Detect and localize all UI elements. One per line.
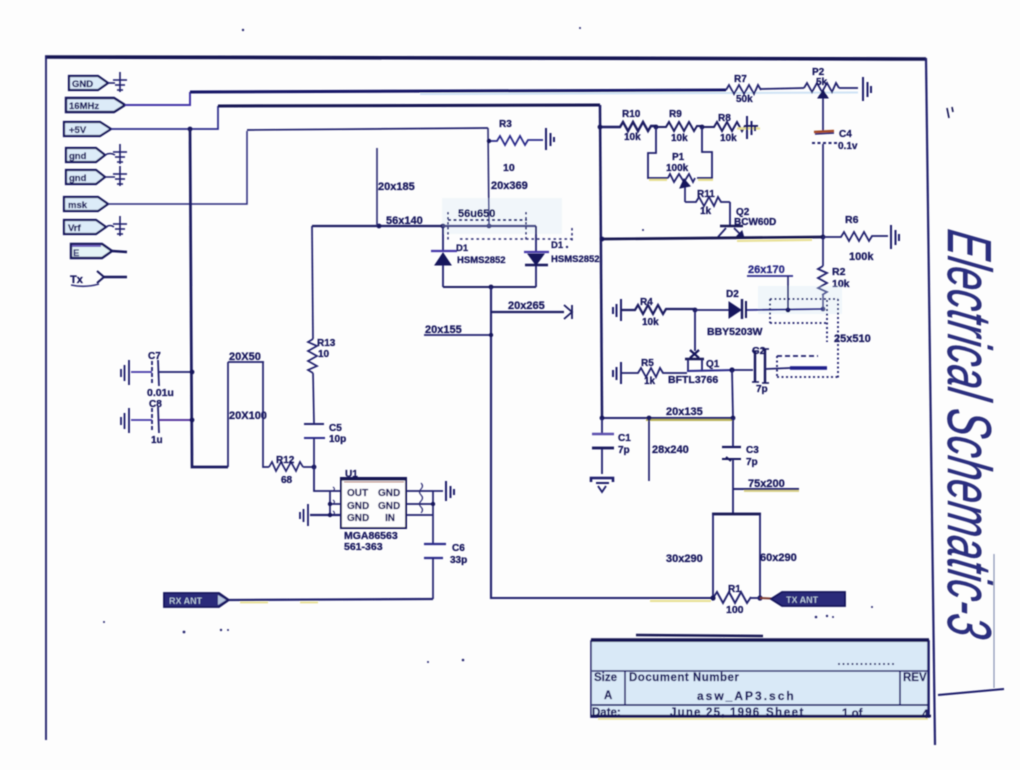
node: [700, 125, 705, 130]
svg-text:10: 10: [503, 162, 515, 174]
svg-text:Size: Size: [594, 672, 617, 684]
node: [729, 367, 734, 372]
IC U1 MGA86563: [341, 469, 406, 553]
scan smudge: [758, 286, 842, 314]
node: [757, 595, 762, 600]
scan speckles: [103, 27, 873, 663]
node: [710, 595, 715, 600]
wire C7 left to ground: [131, 371, 152, 373]
svg-text:561-363: 561-363: [344, 541, 383, 553]
svg-text:60x290: 60x290: [760, 552, 797, 564]
border frame top: [45, 57, 926, 59]
svg-text:Date:: Date:: [592, 707, 621, 719]
svg-text:0.01u: 0.01u: [147, 387, 174, 399]
svg-text:GND: GND: [72, 79, 93, 90]
connector msk: [64, 197, 108, 211]
power wall after R6: [891, 225, 899, 249]
svg-text:16MHz: 16MHz: [69, 101, 99, 112]
capacitor C7: [147, 351, 174, 399]
capacitor C1: [592, 418, 631, 474]
svg-text:20x135: 20x135: [666, 406, 703, 418]
svg-text:R11: R11: [697, 189, 715, 200]
dashed segment box 56u650: [442, 198, 575, 241]
connector TX ANT: [771, 592, 845, 606]
wire: [106, 226, 114, 228]
ground: [113, 144, 127, 164]
node: [693, 308, 698, 313]
wire: [105, 176, 115, 178]
svg-text:100: 100: [726, 604, 744, 616]
svg-text:C8: C8: [149, 399, 162, 410]
stray stroke under handwriting: [938, 689, 1004, 695]
diode D1 right (HSMS2852): [524, 226, 600, 287]
node: [600, 416, 605, 421]
svg-text:HSMS2852: HSMS2852: [551, 254, 600, 265]
node: [786, 308, 791, 313]
svg-text:R9: R9: [669, 109, 682, 120]
wire long vertical down to RF out: [491, 287, 713, 598]
svg-text:1 of: 1 of: [842, 708, 863, 720]
svg-text:56x140: 56x140: [386, 215, 423, 227]
svg-text:C6: C6: [452, 543, 465, 554]
wire R7 to P2: [761, 88, 804, 89]
node +5V junction: [188, 127, 193, 132]
svg-text:10p: 10p: [329, 434, 346, 445]
svg-text:GND: GND: [347, 501, 369, 512]
resistor R1: [650, 584, 751, 616]
svg-text:28x240: 28x240: [652, 444, 689, 456]
wire rail A 16MHz top: [190, 90, 726, 92]
wire Q1 collector down: [732, 370, 733, 418]
wire R13 to C5: [313, 373, 314, 423]
resistor R8: [702, 113, 760, 144]
wire C5 down: [313, 438, 315, 467]
resistor R2 vertical: [818, 237, 850, 309]
svg-text:0.1v: 0.1v: [838, 141, 858, 152]
svg-text:20x369: 20x369: [491, 180, 528, 192]
svg-text:Document Number: Document Number: [629, 672, 739, 684]
svg-text:1u: 1u: [151, 435, 163, 446]
connector +5V: [64, 122, 111, 136]
svg-text:C3: C3: [746, 445, 759, 456]
svg-text:BFTL3766: BFTL3766: [668, 374, 718, 386]
svg-text:10k: 10k: [720, 133, 737, 144]
connector Tx: [70, 271, 104, 286]
wire vertical +5V feed right: [600, 105, 602, 418]
svg-text:20X100: 20X100: [229, 410, 267, 422]
svg-text:1k: 1k: [700, 206, 712, 217]
svg-text:C4: C4: [839, 129, 852, 140]
wire: [104, 276, 127, 279]
border frame right: [926, 58, 935, 745]
node: [190, 418, 195, 423]
svg-text:56u650: 56u650: [458, 208, 495, 220]
svg-text:4: 4: [922, 709, 929, 721]
net 20X50 segment: [228, 351, 264, 467]
svg-text:20x185: 20x185: [378, 181, 415, 193]
net stub 20x369 / R3 node vertical: [488, 128, 528, 226]
power wall at R5: [613, 362, 621, 384]
vertical from 56x140 down to R13: [312, 226, 313, 339]
svg-text:68: 68: [281, 475, 293, 486]
earth ground under C1: [591, 478, 613, 492]
resistor R11: [685, 189, 730, 217]
svg-text:Vrf: Vrf: [68, 223, 82, 234]
paper edge line bottom right: [993, 554, 995, 688]
svg-text:GND: GND: [347, 513, 369, 524]
wire IN pin down: [432, 515, 434, 543]
connector Vrf: [64, 220, 106, 234]
node: [441, 224, 446, 229]
svg-text:50k: 50k: [736, 94, 753, 105]
svg-text:P1: P1: [672, 152, 685, 163]
svg-text:E: E: [73, 248, 79, 259]
resistor R13: [308, 338, 336, 373]
svg-text:June 25, 1996: June 25, 1996: [670, 707, 760, 719]
wire node to U1 OUT: [314, 467, 341, 491]
svg-text:75x200: 75x200: [748, 478, 785, 490]
svg-text:5k: 5k: [816, 77, 828, 88]
svg-text:26x170: 26x170: [748, 264, 785, 276]
power wall after R8: [747, 116, 755, 139]
svg-text:33p: 33p: [450, 555, 467, 566]
connector RX ANT: [164, 593, 229, 607]
svg-text:D2: D2: [726, 289, 739, 300]
power wall at R4: [613, 299, 621, 321]
node: [598, 125, 603, 130]
node: [487, 224, 492, 229]
wire R12 to node: [303, 466, 314, 468]
net stub 28x240: [649, 418, 689, 481]
wire D1 bottom rail: [443, 286, 536, 288]
svg-text:C2: C2: [752, 345, 766, 357]
U1 left pin tie bar: [310, 487, 341, 517]
svg-text:gnd: gnd: [69, 173, 87, 184]
node: [821, 235, 826, 240]
svg-text:Tx: Tx: [70, 274, 84, 286]
transistor Q1 BFTL3766: [668, 310, 720, 386]
node: [731, 416, 736, 421]
border frame left: [45, 56, 47, 740]
wire C3 leads: [732, 418, 734, 489]
svg-text:7p: 7p: [756, 384, 768, 395]
wire +5V: [111, 106, 218, 129]
dashed matching network box: [770, 299, 838, 378]
wire msk long thin: [108, 131, 247, 204]
transistor Q2 BCW60D: [718, 202, 776, 238]
svg-text:30x290: 30x290: [666, 553, 703, 565]
net label 26x170: [747, 264, 793, 310]
connector gnd 2: [66, 170, 105, 184]
svg-text:R4: R4: [640, 297, 653, 308]
wire P2 right: [839, 87, 858, 89]
svg-text:R5: R5: [641, 358, 654, 369]
svg-text:1k: 1k: [644, 376, 656, 387]
wire C7 right: [159, 371, 192, 373]
svg-text:msk: msk: [68, 200, 88, 211]
svg-text:gnd: gnd: [69, 151, 87, 162]
wire: [112, 251, 127, 252]
node: [190, 370, 195, 375]
svg-text:Q1: Q1: [706, 359, 720, 370]
power wall: [863, 77, 871, 101]
ground: [113, 72, 127, 92]
capacitor C2: [735, 345, 769, 395]
wire 16MHz: [125, 92, 190, 105]
svg-text:asw_AP3.sch: asw_AP3.sch: [697, 689, 796, 703]
svg-text:R10: R10: [622, 109, 641, 120]
svg-text:HSMS2852: HSMS2852: [457, 255, 506, 266]
node: [489, 285, 494, 290]
resistor R7: [726, 74, 761, 105]
svg-text:D1: D1: [551, 240, 564, 251]
capacitor C8: [149, 399, 163, 446]
svg-text:7p: 7p: [746, 457, 758, 468]
potentiometer P2: [804, 67, 839, 131]
power wall after R3: [546, 128, 554, 150]
connector gnd: [66, 148, 105, 162]
svg-text:Electrical Schematic-3: Electrical Schematic-3: [934, 226, 1003, 644]
node: [647, 416, 652, 421]
wire C8 right: [159, 419, 192, 421]
svg-text:10: 10: [318, 349, 330, 360]
svg-text:20x155: 20x155: [425, 324, 462, 336]
svg-text:20x265: 20x265: [508, 300, 545, 312]
node: [654, 125, 659, 130]
ground at U1 right: [446, 481, 454, 501]
svg-text:Sheet: Sheet: [766, 707, 805, 719]
wire: [108, 82, 115, 84]
wire C4 down: [822, 144, 824, 237]
svg-text:R6: R6: [845, 214, 859, 226]
svg-text:D1: D1: [456, 243, 469, 254]
resistor R10: [602, 109, 656, 143]
node: [600, 237, 605, 242]
svg-text:BBY5203W: BBY5203W: [707, 326, 763, 338]
svg-text:R2: R2: [832, 266, 846, 278]
svg-text:10k: 10k: [624, 132, 641, 143]
svg-text:R8: R8: [718, 113, 731, 124]
net arrow 20x265: [491, 300, 572, 319]
svg-text:C7: C7: [148, 351, 161, 362]
resonator box: [666, 489, 797, 598]
handwritten sheet title: Electrical Schematic-3 (rotated): [934, 226, 1003, 644]
svg-text:100k: 100k: [666, 163, 689, 174]
connector GND: [69, 76, 108, 90]
svg-text:+5V: +5V: [69, 125, 87, 136]
svg-text:100k: 100k: [849, 251, 874, 263]
net stub 20x185: [377, 148, 415, 226]
wire: [105, 154, 115, 156]
svg-text:C1: C1: [618, 433, 631, 444]
svg-text:REV: REV: [903, 672, 927, 684]
net label 75x200: [733, 478, 799, 491]
U1 right pins: [406, 483, 443, 515]
capacitor C4: [812, 129, 858, 152]
node: [312, 465, 317, 470]
svg-text:7p: 7p: [618, 445, 630, 456]
wire main left vertical: [190, 129, 228, 467]
svg-text:TX ANT: TX ANT: [786, 595, 819, 605]
svg-text:R12: R12: [276, 455, 295, 466]
svg-text:10k: 10k: [642, 317, 659, 328]
wire emitter rail: [602, 237, 823, 239]
net label 20x155: [424, 324, 493, 337]
svg-text:R13: R13: [317, 338, 336, 349]
wire rail C to R3: [247, 128, 488, 130]
resistor R9: [656, 109, 702, 144]
svg-text:IN: IN: [385, 513, 395, 524]
wire 20x135 rail: [602, 417, 733, 419]
svg-text:R7: R7: [734, 74, 747, 85]
svg-text:10k: 10k: [671, 133, 688, 144]
svg-text:OUT: OUT: [347, 488, 368, 499]
svg-text:BCW60D: BCW60D: [734, 217, 776, 228]
connector R (blank): [71, 244, 112, 259]
stray mark top right: [947, 107, 953, 118]
potentiometer P1 with brackets: [648, 127, 713, 202]
wire rail B +5V: [218, 105, 600, 106]
wire C6 down to RX trace: [432, 558, 434, 599]
wire D2 to R2 node: [747, 309, 823, 310]
resistor R3: [487, 119, 543, 174]
svg-text:25x510: 25x510: [834, 333, 871, 345]
capacitor C5: [304, 423, 346, 445]
wire RX ANT: [229, 599, 433, 600]
title block: [591, 635, 931, 721]
svg-text:GND: GND: [378, 501, 400, 512]
ground: [113, 216, 127, 236]
svg-text:RX ANT: RX ANT: [169, 596, 203, 606]
node: [821, 307, 826, 312]
wire R1 to TX ANT: [751, 597, 760, 599]
resistor R4: [621, 297, 695, 328]
ground: [121, 360, 129, 385]
resistor R6: [823, 214, 888, 263]
capacitor C6: [424, 543, 467, 566]
wire 56x140 rail: [312, 225, 536, 227]
svg-text:GND: GND: [378, 488, 400, 499]
ground: [113, 166, 127, 186]
ground at U1 left: [300, 504, 308, 526]
net 20X100 segment: [229, 362, 269, 467]
svg-text:R3: R3: [499, 119, 512, 130]
resistor R12: [269, 455, 303, 486]
ground: [121, 408, 129, 433]
svg-text:A: A: [604, 690, 612, 702]
wire C2 right thick: [765, 368, 790, 369]
node: [377, 224, 382, 229]
diode D2 BBY5203W varactor: [695, 289, 763, 338]
wire Q1 to C2: [687, 370, 735, 371]
diode D1 left (HSMS2852): [431, 227, 506, 287]
capacitor C3: [722, 445, 759, 468]
svg-text:C5: C5: [329, 423, 342, 434]
resistor R5: [621, 358, 687, 387]
connector 16MHz: [66, 98, 125, 112]
svg-text:U1: U1: [345, 469, 358, 480]
svg-text:R1: R1: [728, 584, 741, 595]
wire C8 left to ground: [131, 419, 152, 421]
